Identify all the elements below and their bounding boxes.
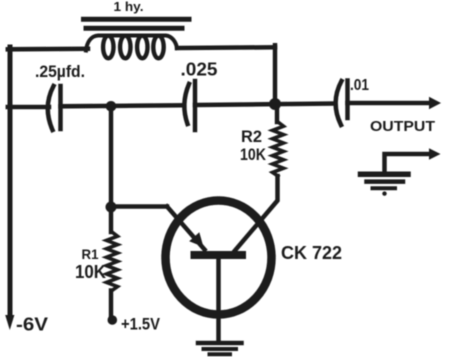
inductor L1 1hy core bars [84, 19, 190, 28]
wire: node A down to node C [109, 106, 114, 207]
label: .01 [350, 77, 369, 94]
wire: main row segment 3 [195, 104, 335, 106]
node: junction A dot [106, 101, 117, 112]
wire: right vertical drop to main row [273, 45, 278, 104]
svg-text:CK 722: CK 722 [281, 243, 342, 263]
svg-text:10K: 10K [240, 145, 267, 164]
wire: base lead down [216, 259, 221, 341]
wire: output ground stub with arrow [385, 154, 431, 172]
ground: output ground [361, 174, 409, 188]
svg-text:.01: .01 [350, 77, 369, 94]
transistor Q1 emitter arrowhead [189, 232, 203, 247]
svg-text:+1.5V: +1.5V [121, 315, 161, 334]
label: +1.5V [121, 315, 161, 334]
wire: main row segment 1 [8, 105, 49, 110]
transistor Q1 base bar [191, 251, 247, 259]
svg-text:.25µfd.: .25µfd. [35, 62, 85, 81]
resistor R1 10K [107, 207, 118, 317]
svg-text:OUTPUT: OUTPUT [370, 119, 435, 135]
wire: top right horizontal [177, 45, 275, 50]
svg-text:.025: .025 [181, 60, 218, 80]
transistor Q1 CK722 circle [166, 201, 272, 315]
label: 10K (R2) [240, 145, 267, 164]
label: CK 722 [281, 243, 342, 263]
label: OUTPUT [370, 119, 435, 135]
label: R1 [82, 246, 99, 262]
ground: transistor base ground [198, 343, 242, 354]
resistor R2 10K [235, 104, 284, 251]
wire: node C to emitter [111, 204, 167, 209]
svg-text:R2: R2 [241, 127, 262, 146]
label: -6V [16, 315, 48, 335]
label: 1 hy. [114, 0, 144, 14]
label: 10K (R1) [75, 262, 106, 282]
node: junction C dot [106, 202, 117, 213]
wire: main row segment 2 [61, 105, 184, 106]
capacitor C1 .25µfd plates [48, 86, 61, 130]
svg-text:1 hy.: 1 hy. [114, 0, 144, 14]
svg-text:10K: 10K [75, 262, 106, 282]
transistor Q1 emitter line [167, 207, 205, 250]
label: R2 [241, 127, 262, 146]
node: +1.5V terminal dot [108, 315, 118, 325]
wire: left vertical rail [8, 47, 13, 317]
wire: output line with arrow [348, 101, 431, 106]
capacitor C3 .01 plates [336, 81, 348, 126]
inductor L1 coil [86, 36, 177, 59]
node: junction B dot [269, 98, 281, 110]
node: -6V terminal arrow [5, 315, 14, 330]
wire: top left horizontal [8, 47, 88, 52]
svg-text:-6V: -6V [16, 315, 48, 335]
label: .025 [181, 60, 218, 80]
label: .25µfd. [35, 62, 85, 81]
capacitor C2 .025 plates [184, 81, 195, 130]
svg-text:R1: R1 [82, 246, 99, 262]
